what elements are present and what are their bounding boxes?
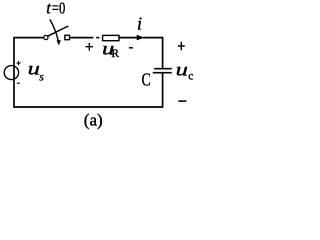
svg-text:t: t — [46, 0, 51, 18]
switch S left terminal — [44, 35, 48, 39]
capacitor C plates — [153, 69, 172, 73]
capacitor polarity + — [178, 42, 185, 50]
resistor polarity + — [86, 43, 94, 51]
wire: switch to resistor — [70, 37, 94, 39]
svg-text:R: R — [111, 48, 119, 60]
resistor polarity - — [129, 47, 133, 49]
svg-text:u: u — [176, 59, 188, 79]
source polarity + — [17, 61, 21, 65]
wire: upper-right corner down to capacitor — [143, 38, 163, 69]
svg-text:C: C — [142, 69, 151, 89]
svg-text:i: i — [137, 13, 142, 33]
resistor box R — [103, 35, 119, 40]
wire: left + bottom + lower-right loop — [14, 38, 163, 107]
svg-text:=0: =0 — [52, 0, 65, 18]
svg-text:(a): (a) — [84, 111, 103, 130]
wire: resistor to current arrow — [119, 37, 137, 39]
switch S blade — [48, 26, 69, 36]
svg-text:s: s — [39, 71, 44, 83]
switch S right terminal — [65, 35, 70, 39]
voltage source us circle — [4, 66, 18, 80]
current arrow i — [137, 35, 145, 41]
source polarity - — [17, 82, 20, 84]
switch S closing arrow — [50, 19, 59, 40]
wire: short dash before resistor — [96, 37, 99, 39]
svg-text:u: u — [28, 59, 40, 79]
capacitor polarity - — [178, 100, 186, 102]
svg-text:c: c — [188, 71, 193, 83]
